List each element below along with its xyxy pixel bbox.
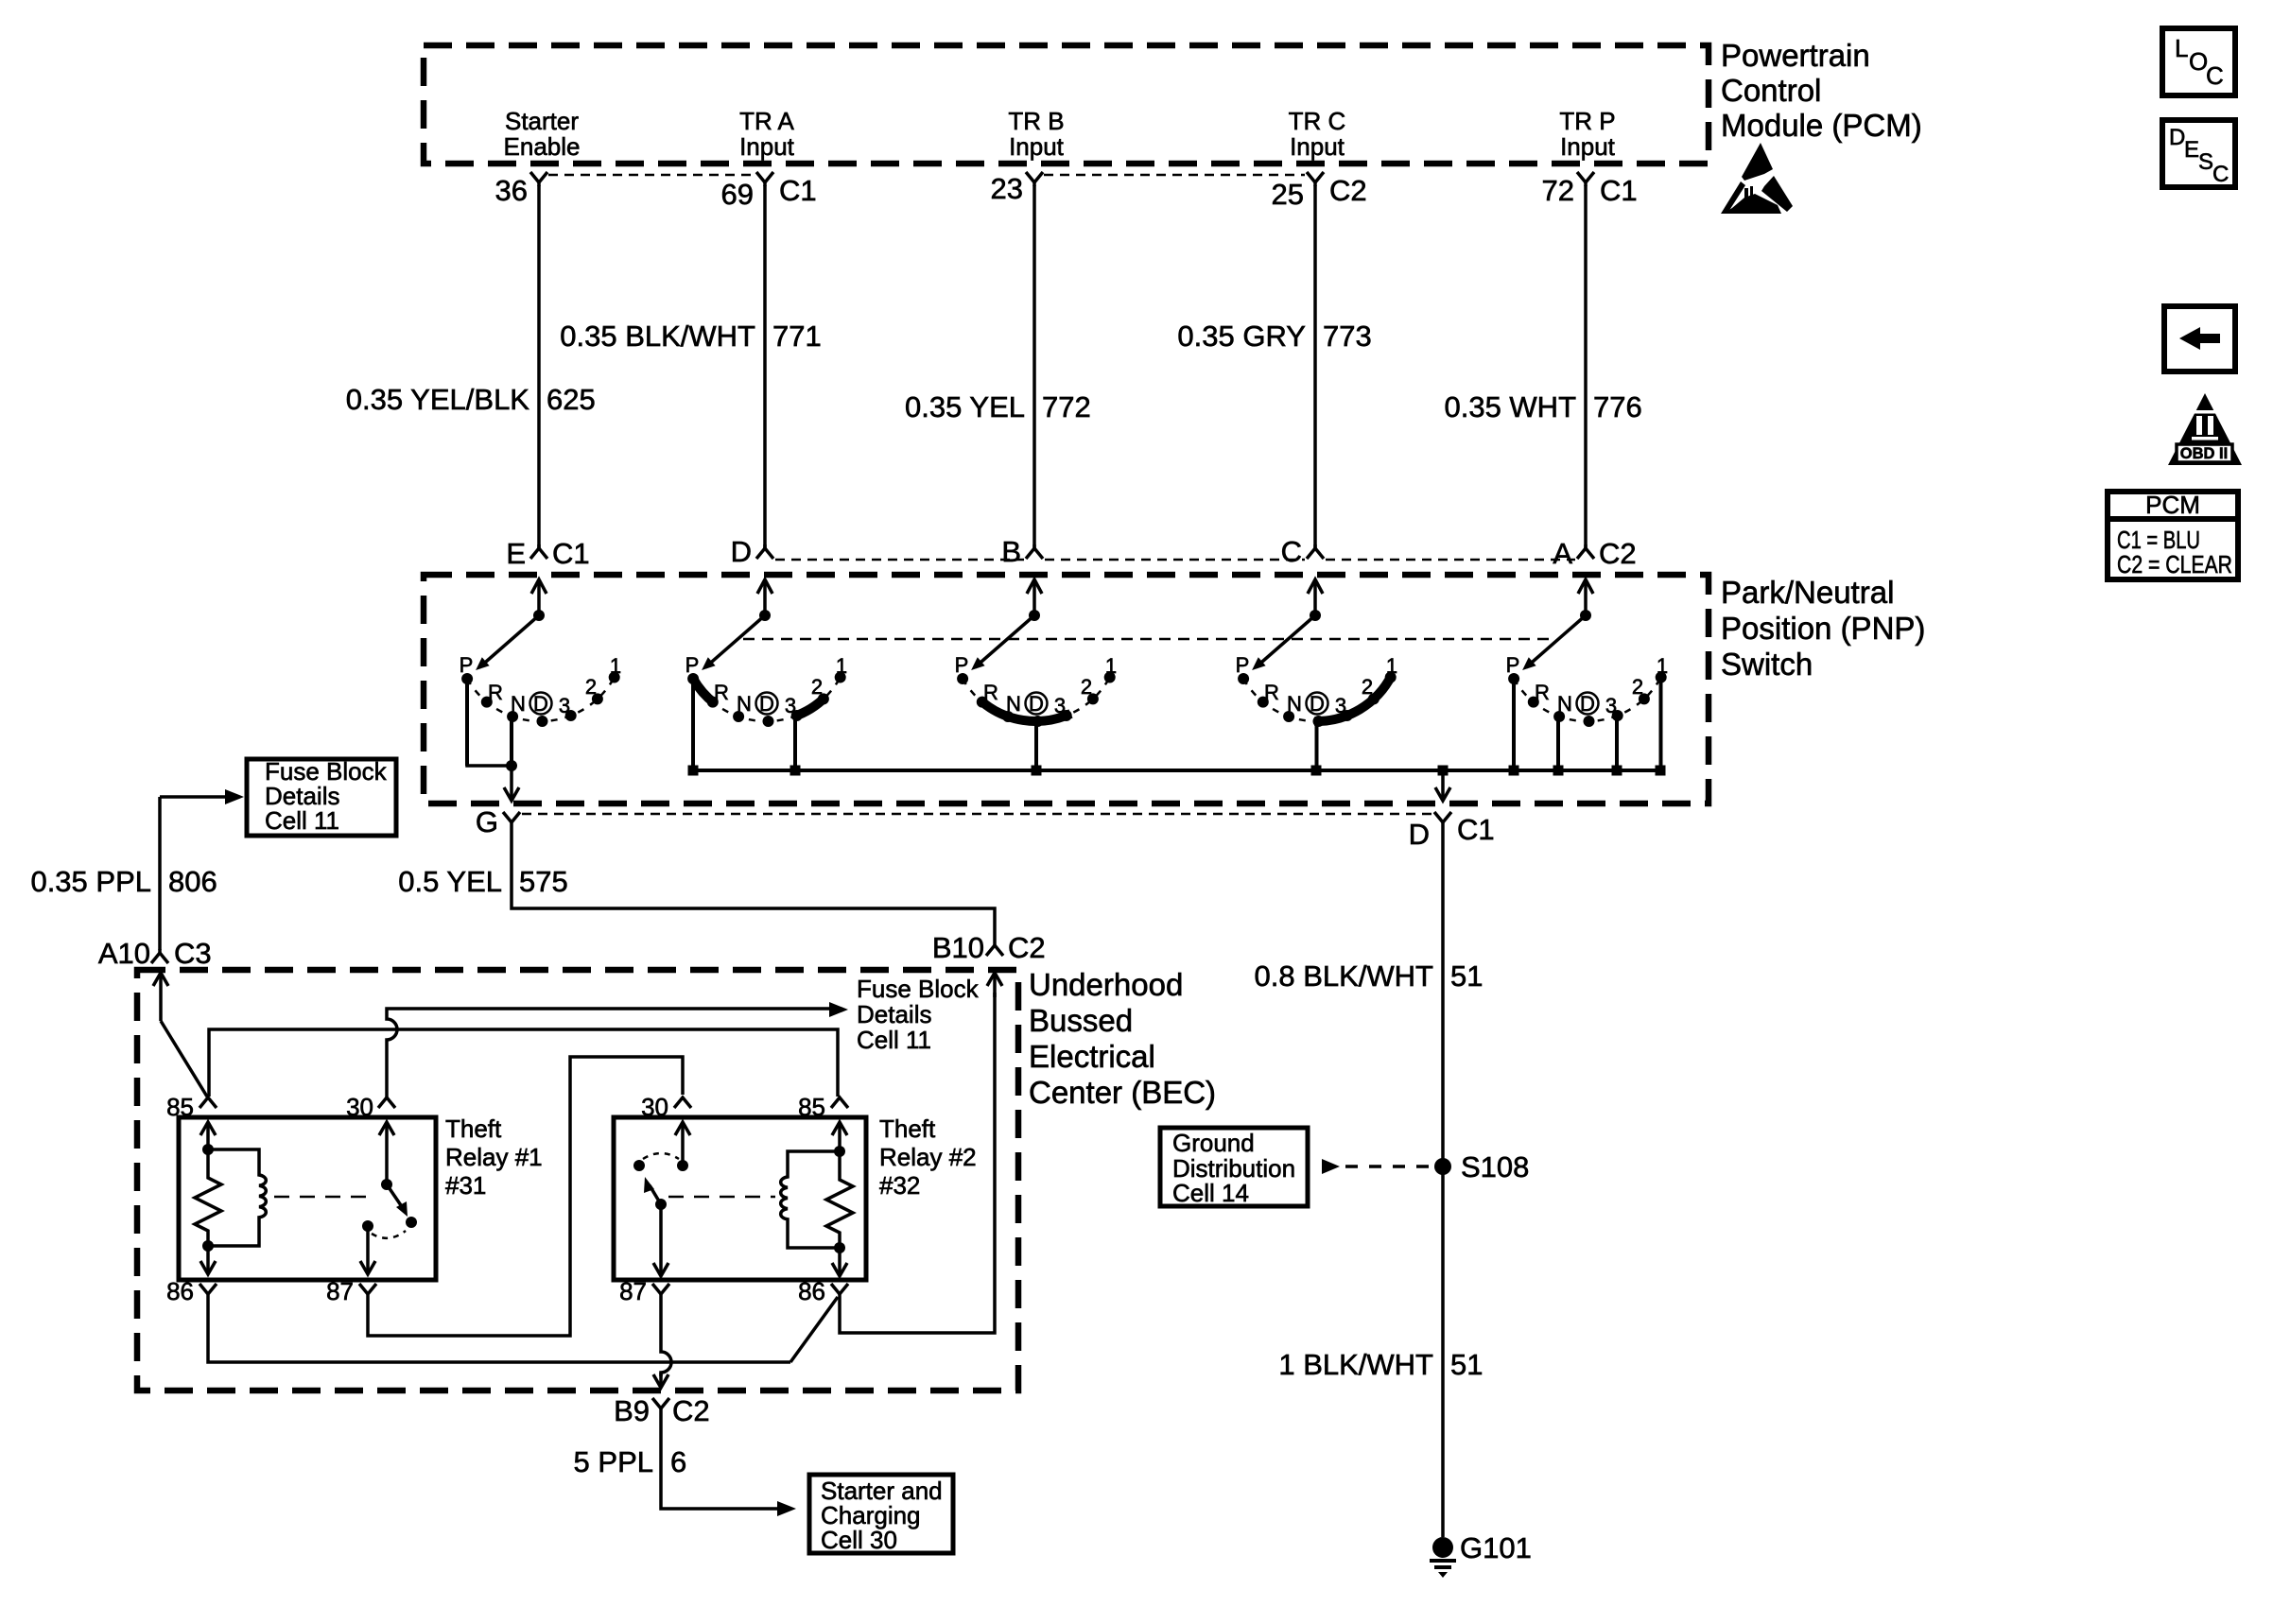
wire 773 GRY vertical <box>1313 185 1317 548</box>
svg-text:TR P: TR P <box>1559 107 1615 135</box>
PNP switch 1 contact P drop wire <box>465 679 469 766</box>
svg-text:#32: #32 <box>879 1171 920 1200</box>
PNP switch 1 wiper feed arrow <box>531 579 547 615</box>
svg-text:0.35 PPL: 0.35 PPL <box>30 865 151 898</box>
PNP G output arrow <box>504 766 519 801</box>
svg-text:N: N <box>1557 692 1572 716</box>
relay 2 pin 85 fork <box>831 1097 848 1108</box>
PNP switch 4 contact labels P R N D 3 2 1 <box>1236 653 1397 717</box>
svg-text:773: 773 <box>1323 320 1372 353</box>
svg-text:D: D <box>1029 692 1044 716</box>
PNP switch 2 contact arc dashed <box>693 678 841 722</box>
svg-text:2: 2 <box>1632 675 1643 699</box>
svg-text:L: L <box>2175 34 2188 62</box>
svg-text:Switch: Switch <box>1721 647 1813 682</box>
PNP switch 2 contact labels P R N D 3 2 1 <box>685 653 847 717</box>
wire 625 YEL/BLK vertical <box>537 185 541 548</box>
wire 776 WHT vertical <box>1584 185 1588 548</box>
PCM connector C1 dashed face line 36-69 <box>548 174 755 177</box>
relay 1 actuation dashed link <box>274 1196 368 1199</box>
ground G101 symbol <box>1430 1537 1456 1578</box>
relay 2 resistor <box>826 1151 853 1248</box>
relay 2 pin 86 exit arrow <box>832 1248 847 1276</box>
svg-text:D: D <box>731 535 752 568</box>
PNP selector mechanical link dashed line <box>743 638 1553 641</box>
svg-text:C: C <box>2206 61 2224 90</box>
Ground Distribution reference arrow <box>1322 1159 1340 1174</box>
Theft Relay #1 box <box>179 1117 436 1280</box>
PNP switch 5 wiper pivot dot <box>1580 610 1591 621</box>
svg-text:0.35 YEL/BLK: 0.35 YEL/BLK <box>346 383 530 416</box>
PNP switch 1 circled D position label <box>530 692 552 716</box>
relay 1 switch blade <box>387 1184 408 1217</box>
Underhood Bussed Electrical Center (BEC) box <box>137 970 1018 1391</box>
PNP switch 3 contact dots <box>957 672 1116 728</box>
svg-text:Input: Input <box>1560 132 1616 161</box>
PNP switch 3 wiper pivot dot <box>1029 610 1040 621</box>
svg-text:PCM: PCM <box>2145 491 2200 519</box>
wire 86-86 diagonal to relay2 86 fork <box>790 1297 838 1362</box>
svg-text:Cell 11: Cell 11 <box>265 806 339 835</box>
PNP terminal A fork <box>1577 544 1594 559</box>
PNP connector dashed face line C-A <box>1326 559 1575 561</box>
svg-text:771: 771 <box>772 320 822 353</box>
PNP terminal G fork <box>503 812 520 826</box>
Powertrain Control Module (PCM) box <box>424 45 1709 164</box>
relay 1 switch blade end dot <box>406 1217 417 1228</box>
svg-text:A10: A10 <box>98 937 150 970</box>
relay 2 coil feed arrow pin 85 <box>832 1122 847 1151</box>
PNP D C1 output arrow <box>1435 770 1450 801</box>
Fuse Block Details Cell 11 text (left) <box>265 757 388 835</box>
legend DESC box <box>2162 120 2235 187</box>
svg-text:0.8 BLK/WHT: 0.8 BLK/WHT <box>1255 959 1434 993</box>
relay 2 coil bottom junction dot <box>834 1242 845 1253</box>
PNP switch 3 contact D drop wire <box>1034 721 1038 770</box>
relay 2 pin 87 exit wire with hop <box>661 1298 671 1376</box>
svg-text:Cell 30: Cell 30 <box>821 1526 897 1554</box>
svg-text:A: A <box>1553 537 1572 570</box>
svg-text:Fuse Block: Fuse Block <box>857 975 980 1003</box>
svg-text:Ground: Ground <box>1172 1129 1255 1157</box>
PCM pin label TR C Input <box>1289 107 1346 161</box>
wire 1 BLK/WHT 51 label <box>1278 1348 1483 1381</box>
PNP switch 2 circled D position label <box>756 692 778 716</box>
PNP switch 5 contact N drop wire <box>1556 716 1560 770</box>
PCM pin label TR P Input <box>1559 107 1615 161</box>
relay 1 pin 86 fork <box>200 1284 217 1298</box>
svg-text:Cell 14: Cell 14 <box>1172 1179 1249 1207</box>
PNP switch 2 contact dots <box>687 672 846 728</box>
wire 806 label <box>30 865 217 898</box>
svg-text:C1: C1 <box>1600 174 1638 207</box>
relay 1 coil inductor <box>208 1149 266 1246</box>
svg-text:1: 1 <box>1657 654 1668 678</box>
PNP switch 4 contact D drop wire <box>1315 720 1319 770</box>
svg-text:3: 3 <box>559 694 570 717</box>
relay 2 switch pivot dot <box>655 1199 667 1210</box>
svg-text:C1: C1 <box>1457 813 1495 846</box>
relay 1 switch common contact dot <box>381 1179 392 1190</box>
svg-text:R: R <box>1535 681 1550 704</box>
PNP internal ground bus wire <box>693 769 1661 772</box>
Fuse Block Details Cell 11 reference box (left) <box>247 759 396 836</box>
svg-text:E: E <box>2184 137 2199 163</box>
svg-text:P: P <box>685 653 700 677</box>
PNP switch 5 contact 1 drop wire <box>1659 678 1663 770</box>
PNP switch 1 contact labels P R N D 3 2 1 <box>460 653 621 717</box>
PNP switch 3 closed contact thick arc segment <box>980 700 1070 721</box>
svg-text:P: P <box>1236 653 1250 677</box>
svg-text:51: 51 <box>1450 1348 1483 1381</box>
svg-text:C1: C1 <box>779 174 817 207</box>
PNP switch 5 contact arc dashed <box>1514 678 1661 722</box>
PNP switch 4 contact dots <box>1238 672 1397 728</box>
svg-text:R: R <box>1264 681 1279 704</box>
PNP switch 5 wiper arm <box>1526 615 1586 667</box>
BEC internal wire line A (relay1 30 to fuse block) <box>387 1009 830 1097</box>
svg-text:Underhood: Underhood <box>1029 967 1183 1002</box>
wire 806 PPL vertical <box>158 797 162 950</box>
Fuse Block reference arrow (left) <box>160 789 244 804</box>
PNP terminal E fork <box>530 544 547 559</box>
PNP switch 5 contact P drop wire <box>1512 679 1516 770</box>
svg-text:TR A: TR A <box>739 107 794 135</box>
legend LOC box <box>2162 28 2235 95</box>
wire 6 PPL from B9 to starter <box>661 1412 781 1509</box>
splice S108 dot <box>1434 1158 1451 1175</box>
PNP switch 3 contact labels P R N D 3 2 1 <box>955 653 1117 717</box>
PNP switch 3 wiper arm <box>975 615 1034 667</box>
svg-text:N: N <box>1287 692 1302 716</box>
relay 1 pin 30 fork <box>378 1097 395 1108</box>
relay 1 coil feed arrow pin 85 <box>200 1122 216 1148</box>
svg-text:625: 625 <box>547 383 596 416</box>
PNP module name label <box>1721 575 1925 682</box>
svg-text:Starter: Starter <box>505 107 579 135</box>
svg-text:R: R <box>488 681 503 704</box>
BEC B10 entry arrow <box>987 973 1002 997</box>
PNP switch 1 contact dots <box>461 672 620 728</box>
BEC internal wire line B (relay1 85 to relay2 85) <box>209 1029 838 1097</box>
PNP switch 3 circled D position label <box>1026 692 1048 716</box>
svg-text:Relay #2: Relay #2 <box>879 1143 977 1171</box>
PNP switch 3 wiper feed arrow <box>1027 579 1042 615</box>
svg-text:B9: B9 <box>614 1394 650 1427</box>
relay 1 switch travel dashed arc <box>372 1231 406 1238</box>
PNP switch 1 wiper pivot dot <box>533 610 545 621</box>
svg-text:Cell 11: Cell 11 <box>857 1026 931 1054</box>
wire 772 label <box>905 390 1091 423</box>
svg-text:Input: Input <box>1009 132 1065 161</box>
wire 51 BLK/WHT from D C1 to ground <box>1441 826 1445 1537</box>
Theft Relay #2 name label <box>879 1114 977 1200</box>
legend back arrow box <box>2164 306 2235 371</box>
svg-text:86: 86 <box>798 1277 825 1305</box>
wire B10 to relay2 86 <box>840 993 995 1333</box>
PNP switch 1 N drop to junction <box>510 716 513 766</box>
svg-text:575: 575 <box>519 865 568 898</box>
relay 2 switch common contact dot <box>677 1160 688 1171</box>
svg-text:S108: S108 <box>1461 1150 1529 1183</box>
PNP switch 5 contact labels P R N D 3 2 1 <box>1506 653 1668 717</box>
svg-text:72: 72 <box>1542 174 1574 207</box>
svg-text:C2: C2 <box>1599 537 1637 570</box>
svg-text:2: 2 <box>1081 675 1092 699</box>
PNP switch 1 contact N drop wire <box>510 716 513 766</box>
wire 771 BLK/WHT vertical <box>763 185 767 548</box>
relay 2 pin 30 fork <box>674 1097 691 1108</box>
svg-text:0.35 GRY: 0.35 GRY <box>1177 320 1306 353</box>
legend PCM connector color table <box>2108 491 2238 579</box>
svg-text:Powertrain: Powertrain <box>1721 38 1870 73</box>
svg-text:G: G <box>476 805 498 838</box>
relay 1 pin 86 exit arrow <box>200 1246 216 1274</box>
PNP connector dashed face line B-C <box>1045 559 1305 561</box>
svg-text:1: 1 <box>610 654 621 678</box>
svg-text:D: D <box>759 692 774 716</box>
PNP terminal D fork <box>756 544 773 559</box>
svg-text:N: N <box>511 692 526 716</box>
svg-text:1 BLK/WHT: 1 BLK/WHT <box>1278 1348 1433 1381</box>
svg-text:Bussed: Bussed <box>1029 1003 1133 1038</box>
svg-text:Control: Control <box>1721 73 1821 108</box>
relay 2 pin 86 fork <box>831 1284 848 1298</box>
BEC terminal B9 fork <box>652 1398 669 1412</box>
PCM connector C2 dashed face line 23-25 <box>1044 174 1305 177</box>
svg-text:P: P <box>1506 653 1520 677</box>
svg-text:36: 36 <box>495 174 528 207</box>
Fuse Block Details Cell 11 text (BEC) <box>857 975 980 1054</box>
svg-text:Module (PCM): Module (PCM) <box>1721 108 1922 143</box>
PCM terminal 69 fork <box>756 172 773 186</box>
svg-text:6: 6 <box>670 1445 686 1478</box>
PNP switch 4 closed contact thick arc segment <box>1314 675 1392 721</box>
svg-text:3: 3 <box>1605 694 1617 717</box>
PNP switch 1 output junction dot <box>506 760 517 771</box>
wire 6 PPL label <box>574 1445 687 1478</box>
svg-text:Center (BEC): Center (BEC) <box>1029 1075 1216 1110</box>
wire relay2 30 feed from relay1 87 <box>368 1057 683 1336</box>
svg-text:86: 86 <box>166 1277 194 1305</box>
relay 1 pin 87 exit arrow <box>360 1226 375 1274</box>
svg-text:Park/Neutral: Park/Neutral <box>1721 575 1894 610</box>
svg-text:1: 1 <box>836 654 847 678</box>
BEC A10 entry arrow <box>153 973 168 1021</box>
Ground Distribution Cell 14 reference box <box>1160 1128 1308 1206</box>
svg-text:C1: C1 <box>552 537 590 570</box>
PCM module name label <box>1721 38 1922 143</box>
svg-text:25: 25 <box>1272 178 1304 211</box>
PNP switch 1 contact arc dashed <box>467 678 615 722</box>
PNP switch 1 wiper arm <box>479 615 539 667</box>
svg-text:1: 1 <box>1105 654 1117 678</box>
svg-text:B10: B10 <box>932 931 984 964</box>
svg-text:772: 772 <box>1042 390 1091 423</box>
svg-text:TR B: TR B <box>1008 107 1064 135</box>
PNP switch 4 contact arc dashed <box>1243 678 1391 722</box>
svg-text:N: N <box>737 692 752 716</box>
svg-text:C: C <box>2212 162 2229 187</box>
BEC B9 exit arrow <box>653 1373 668 1388</box>
svg-text:Relay #1: Relay #1 <box>445 1143 543 1171</box>
svg-text:S: S <box>2198 149 2213 175</box>
wire 771 label <box>560 320 821 353</box>
wire 772 YEL vertical <box>1032 185 1036 548</box>
PCM terminal 23 fork <box>1026 172 1043 186</box>
svg-text:P: P <box>955 653 969 677</box>
svg-text:23: 23 <box>991 172 1023 205</box>
relay 2 coil top junction dot <box>834 1146 845 1157</box>
relay 2 pin 87 fork <box>652 1284 669 1298</box>
PCM pin label TR A Input <box>739 107 795 161</box>
svg-text:D: D <box>2169 125 2185 150</box>
PNP switch 5 contact dots <box>1508 672 1667 728</box>
svg-text:5 PPL: 5 PPL <box>574 1445 653 1478</box>
PNP switch 2 closed contact thick arc segment <box>693 679 715 703</box>
PNP terminal D C1 fork <box>1434 812 1451 826</box>
PCM pin label TR B Input <box>1008 107 1064 161</box>
svg-text:Enable: Enable <box>504 132 581 161</box>
relay 2 second contact dot <box>633 1160 645 1171</box>
svg-text:Details: Details <box>857 1000 931 1028</box>
wire relay1 86 to relay2 86 <box>208 1298 790 1362</box>
svg-text:OBD II: OBD II <box>2180 445 2228 462</box>
PNP terminal B fork <box>1026 544 1043 559</box>
svg-text:806: 806 <box>168 865 217 898</box>
relay 2 pin 87 exit arrow <box>653 1204 668 1276</box>
svg-text:D: D <box>1580 692 1595 716</box>
PNP switch 4 wiper pivot dot <box>1310 610 1321 621</box>
relay 2 actuation dashed link <box>668 1196 775 1199</box>
PNP switch 2 wiper pivot dot <box>759 610 771 621</box>
svg-text:87: 87 <box>326 1277 354 1305</box>
svg-text:87: 87 <box>619 1277 647 1305</box>
svg-text:C2 = CLEAR: C2 = CLEAR <box>2117 550 2232 579</box>
BEC terminal B10 fork <box>986 942 1003 956</box>
svg-text:P: P <box>460 653 474 677</box>
BEC terminal A10 fork <box>151 949 168 963</box>
svg-text:E: E <box>506 537 526 570</box>
wire 575 label <box>398 865 567 898</box>
PNP switch 5 contact 3 drop wire <box>1615 717 1619 770</box>
wire 625 label <box>346 383 596 416</box>
relay 2 switch blade <box>644 1177 661 1204</box>
PNP bottom connector dashed face line G-D <box>522 813 1433 816</box>
svg-text:0.35 WHT: 0.35 WHT <box>1444 390 1576 423</box>
svg-text:C3: C3 <box>174 937 212 970</box>
relay 2 switch travel dashed arc <box>643 1153 679 1159</box>
PNP switch 2 contact P drop wire <box>691 681 695 770</box>
svg-text:69: 69 <box>721 178 754 211</box>
PNP switch 5 circled D position label <box>1577 692 1599 716</box>
PNP switch 4 circled D position label <box>1307 692 1328 716</box>
PCM terminal 72 fork <box>1577 172 1594 186</box>
wire 773 label <box>1177 320 1371 353</box>
relay 1 coil bottom junction dot <box>202 1240 214 1252</box>
PNP switch 2 contact 3 drop wire <box>793 718 797 770</box>
relay 1 pin 87 fork <box>359 1284 376 1298</box>
svg-text:#31: #31 <box>445 1171 486 1200</box>
PCM terminal 36 fork <box>530 172 547 186</box>
PNP switch 2 closed contact thick arc segment <box>794 698 825 717</box>
svg-text:C2: C2 <box>672 1394 710 1427</box>
PNP switch 1 P-N link wire <box>467 679 512 766</box>
relay 1 contact 87 dot <box>362 1220 373 1232</box>
relay 1 resistor <box>195 1149 221 1246</box>
relay 1 coil top junction dot <box>202 1144 214 1155</box>
Ground Distribution Cell 14 text <box>1172 1129 1295 1207</box>
svg-text:2: 2 <box>585 675 597 699</box>
relay 2 switch feed arrow pin 30 <box>675 1122 690 1166</box>
svg-text:C: C <box>1281 535 1302 568</box>
svg-text:C2: C2 <box>1008 931 1046 964</box>
PNP terminal C fork <box>1307 544 1324 559</box>
svg-text:Position (PNP): Position (PNP) <box>1721 611 1925 646</box>
wire A10 to relay 1 coil 85 diagonal <box>161 1021 207 1097</box>
PNP switch 5 wiper feed arrow <box>1578 579 1593 615</box>
svg-text:51: 51 <box>1450 959 1483 993</box>
wire 0.8 BLK/WHT 51 label <box>1255 959 1484 993</box>
legend OBD II triangle symbol <box>2168 393 2242 465</box>
svg-text:Theft: Theft <box>445 1114 502 1143</box>
svg-text:Input: Input <box>739 132 795 161</box>
svg-text:0.5 YEL: 0.5 YEL <box>398 865 502 898</box>
svg-text:0.35 BLK/WHT: 0.35 BLK/WHT <box>560 320 755 353</box>
PNP connector dashed face line D-B <box>775 559 1024 561</box>
PNP switch 4 wiper feed arrow <box>1308 579 1323 615</box>
relay 1 switch feed arrow pin 30 <box>379 1122 394 1184</box>
svg-text:TR C: TR C <box>1289 107 1346 135</box>
wire 6 PPL arrowhead <box>777 1501 796 1516</box>
Ground Distribution dashed reference line <box>1345 1165 1431 1168</box>
relay 2 coil inductor <box>781 1151 840 1248</box>
PNP switch 2 wiper arm <box>705 615 765 667</box>
svg-text:Electrical: Electrical <box>1029 1039 1155 1074</box>
relay 1 pin 85 fork <box>200 1097 217 1108</box>
svg-text:776: 776 <box>1593 390 1642 423</box>
Fuse Block reference arrow (BEC) <box>829 1002 848 1017</box>
Starter and Charging Cell 30 reference box <box>809 1475 953 1553</box>
wire 776 label <box>1444 390 1641 423</box>
PNP switch 2 wiper feed arrow <box>757 579 772 615</box>
svg-text:D: D <box>1310 692 1325 716</box>
ESD sensitive device symbol <box>1721 143 1793 214</box>
PCM terminal 25 fork <box>1307 172 1324 186</box>
PNP bus junction dots <box>688 766 1666 776</box>
wire 575 YEL from G to B10 <box>512 826 995 942</box>
svg-text:C2: C2 <box>1329 174 1367 207</box>
Theft Relay #2 box <box>614 1117 866 1280</box>
svg-text:G101: G101 <box>1460 1531 1532 1564</box>
PCM pin label Starter Enable <box>504 107 581 161</box>
BEC module name label <box>1029 967 1216 1110</box>
Park/Neutral Position (PNP) Switch box <box>424 575 1709 803</box>
svg-text:0.35 YEL: 0.35 YEL <box>905 390 1025 423</box>
Starter and Charging Cell 30 text <box>821 1477 943 1554</box>
svg-text:B: B <box>1001 535 1021 568</box>
svg-text:D: D <box>533 692 548 716</box>
PNP switch 3 contact arc dashed <box>963 678 1110 722</box>
Theft Relay #1 name label <box>445 1114 543 1200</box>
svg-text:Theft: Theft <box>879 1114 936 1143</box>
PNP switch 4 wiper arm <box>1256 615 1315 667</box>
svg-text:D: D <box>1409 818 1430 851</box>
svg-text:Input: Input <box>1290 132 1345 161</box>
